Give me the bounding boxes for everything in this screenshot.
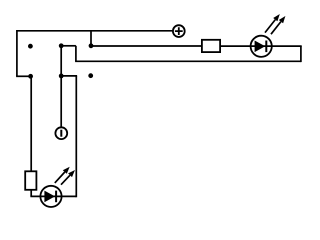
resistor R2 (vertical, bottom left) (25, 171, 36, 190)
wire: long vertical from bottom rail up to node (76.3,75.9) (75, 76, 77, 197)
wire: long lower horizontal rail y=61.3 (75, 60, 301, 62)
wire: vertical from top rail down to node (91,45.8) (90, 31, 92, 46)
LED D2 light arrow 1 (55, 167, 70, 183)
node: junction dot at (61.2,45.8) (59, 43, 64, 48)
LED D2 anode triangle (44, 191, 55, 203)
LED D1 (top right) (251, 14, 286, 57)
node: junction dot at (91,45.8) (89, 43, 94, 48)
wire: short vertical corner (75.9,45.8) to (75.9,61.3) (75, 46, 77, 62)
wire: main horizontal y=46 from node (91,45.8) to resistor R1 (91, 45, 202, 47)
LED D1 body circle (251, 36, 272, 57)
wire: bottom horizontal from LED2 to right corner (51, 195, 76, 197)
battery + terminal (173, 25, 185, 37)
LED D1 light arrow 1 (265, 14, 280, 33)
node: junction dot at (61.2,75.9) (59, 74, 64, 79)
LED D2 body circle (40, 186, 61, 207)
node: unconnected terminal dot at (30.4,46.2) (28, 44, 33, 49)
wire: vertical from resistor bottom to bottom rail (30, 190, 32, 197)
LED D1 anode triangle (255, 41, 266, 53)
wire: top horizontal from top-left corner to + terminal (17, 30, 173, 32)
wire: horizontal from node (61.2,75.9) to vertical riser (61, 75, 77, 77)
wire: left vertical side (16, 30, 18, 76)
wire: right edge vertical (300, 46, 302, 62)
wire: short horizontal into node at (30.6,76.3) (16, 75, 31, 77)
LED D2 light arrow 2 (61, 170, 75, 185)
wire: vertical through node (61.2,75.9) from node (61.2,45.8) to - terminal (60, 46, 62, 128)
node: unconnected terminal dot at (90.7,75.7) (88, 73, 93, 78)
wire: horizontal y=46 from resistor R1 through LED1 to right edge (220, 45, 302, 47)
LED D1 cathode bar (265, 41, 267, 53)
resistor R1 (horizontal, top right) (202, 40, 220, 52)
LED D2 (bottom left) (40, 167, 75, 207)
wire: horizontal from node (61.2,45.8) to corner (75.9,45.8) (61, 45, 76, 47)
battery - terminal (bar drawn along wire axis) (55, 127, 67, 139)
LED D2 cathode bar (55, 191, 57, 203)
LED D1 light arrow 2 (271, 16, 285, 34)
wire: bottom horizontal into LED2 (30, 195, 51, 197)
wire: vertical from node (30.6,76.3) down to resistor top (30, 76, 32, 171)
node: junction dot at (30.6,76.3) (28, 74, 33, 79)
